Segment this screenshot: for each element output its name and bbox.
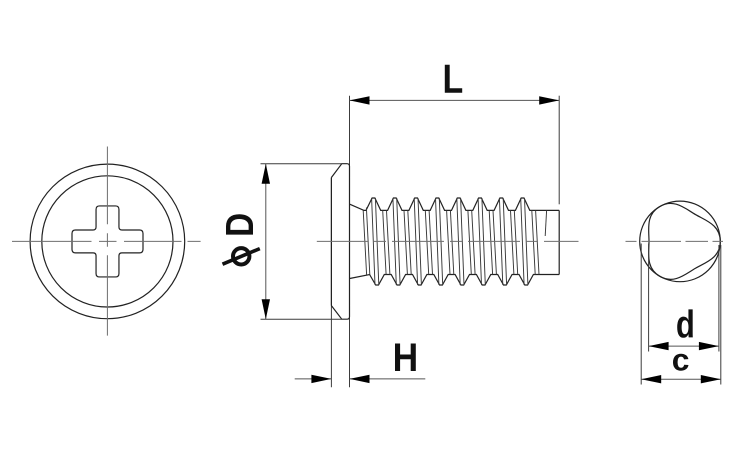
phillips cross recess — [72, 206, 143, 277]
shank end face — [558, 210, 560, 274]
dimension d left arrow — [649, 342, 669, 350]
head front view outer circle — [30, 164, 185, 319]
front view vertical centerline — [106, 147, 108, 336]
dimension d extension line right — [718, 245, 720, 352]
dimension H right arrow — [350, 375, 370, 383]
dimension phiD extension line bottom — [261, 318, 342, 320]
dimension c left arrow — [641, 375, 661, 383]
dimension d line — [649, 345, 719, 347]
dimension H line left tail — [295, 378, 332, 380]
cross-section centerline — [626, 240, 724, 242]
head side view right face with L and H extension line — [349, 96, 351, 388]
dimension phiD label D — [226, 214, 253, 234]
dimension d right arrow — [699, 342, 719, 350]
dimension phiD top arrow — [262, 164, 270, 184]
dimension d label — [677, 309, 693, 337]
trilobular lobe profile — [649, 203, 721, 279]
dimension c extension line right — [720, 245, 722, 385]
side view centerline — [317, 240, 579, 242]
thread bottom outline — [350, 275, 560, 286]
dimension H label — [395, 344, 416, 371]
dimension L label — [445, 65, 462, 93]
dimension c right arrow — [701, 375, 721, 383]
thread runout tick at end — [545, 210, 546, 236]
dimension d extension line left — [648, 244, 650, 352]
dimension c line — [641, 378, 721, 380]
dimension L line — [350, 99, 560, 101]
dimension c label — [673, 354, 689, 371]
head side view outline — [331, 164, 349, 320]
cross-section circumscribed circle — [640, 201, 721, 282]
dimension phiD bottom arrow — [262, 299, 270, 319]
dimension L extension line right — [558, 96, 560, 205]
dimension L left arrow — [350, 96, 370, 104]
dimension phiD line — [265, 164, 267, 320]
dimension phiD extension line top — [261, 163, 342, 165]
thread top outline — [350, 198, 560, 210]
dimension L right arrow — [539, 96, 559, 104]
thread flank lines — [363, 198, 539, 285]
dimension c extension line left — [640, 244, 642, 385]
front view horizontal centerline — [12, 240, 201, 242]
diameter symbol phi — [223, 248, 260, 264]
head side view left face and H extension line — [330, 178, 332, 388]
dimension H line right tail — [350, 378, 426, 380]
dimension H left arrow — [311, 375, 331, 383]
head front view chamfer circle — [42, 176, 173, 307]
